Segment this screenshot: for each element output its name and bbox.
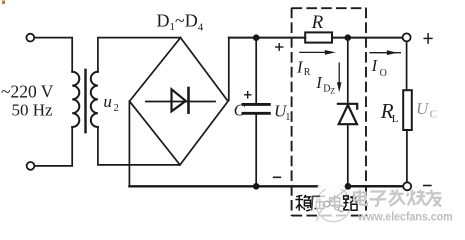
bridge rectifier D1~D4 diamond <box>130 38 229 165</box>
wire zener anode to bottom rail <box>347 124 349 186</box>
caption 稳 (drawn strokes) <box>295 195 311 211</box>
svg-text:L: L <box>392 113 399 125</box>
caption 压 (drawn strokes) <box>312 196 326 210</box>
current arrow IO <box>369 50 401 55</box>
junction node: rail / C bottom <box>253 183 260 190</box>
current arrow IDZ (downward) <box>337 63 342 93</box>
svg-text:~220 V: ~220 V <box>1 82 54 102</box>
capacitor C plates <box>243 103 269 106</box>
wire capacitor C bottom <box>255 115 257 187</box>
transformer T1 core <box>84 70 86 132</box>
zener diode DZ triangle (hollow) <box>339 105 357 124</box>
svg-text:U: U <box>416 99 430 118</box>
wire bridge right vertex up to positive rail <box>228 38 230 101</box>
svg-text:www.elecfans.com: www.elecfans.com <box>357 210 452 224</box>
svg-text:50 Hz: 50 Hz <box>12 101 54 120</box>
svg-text:1: 1 <box>285 112 290 123</box>
caption 电 (drawn strokes) <box>330 195 341 210</box>
output terminal bottom-right <box>403 182 411 190</box>
stray orange pixel mark top-left corner <box>2 1 5 5</box>
svg-text:Z: Z <box>330 86 335 95</box>
junction node redrawn over stamp <box>345 183 352 190</box>
wire bridge left vertex down to negative rail <box>128 101 130 186</box>
zener diode DZ cathode bar with right bent end <box>338 104 357 109</box>
wire secondary bottom to bridge bottom vertex <box>98 127 180 165</box>
polarity + on positive rail <box>275 43 284 51</box>
svg-text:R: R <box>311 12 324 33</box>
svg-text:D1~D4: D1~D4 <box>157 11 204 34</box>
watermark text 电子发烧友 (drawn strokes, light gray) <box>354 189 441 206</box>
wire zener branch top <box>347 38 349 105</box>
polarity + at output <box>424 33 433 44</box>
bridge diode triangle (hollow) <box>172 89 186 111</box>
bridge diode horizontal lead <box>146 101 215 103</box>
caption 压 outer strokes (visible above watermark) <box>312 196 320 210</box>
junction node: rail / zener top <box>345 34 352 41</box>
wire capacitor C top <box>255 38 257 103</box>
input terminal top-left <box>26 34 34 42</box>
svg-text:R: R <box>304 67 311 78</box>
wire secondary top to bridge top vertex <box>98 38 181 72</box>
caption 路 (drawn strokes) <box>343 195 357 210</box>
svg-text:C: C <box>234 101 246 120</box>
output terminal top-right <box>403 33 411 41</box>
bridge diode cathode bar <box>187 88 190 113</box>
positive top rail (left of resistor R) <box>229 37 305 39</box>
current arrow IR <box>299 50 336 55</box>
transformer T1 primary winding <box>72 72 79 127</box>
positive top rail (right of resistor R) <box>332 37 402 39</box>
input terminal bottom-left <box>27 162 35 170</box>
transformer T1 secondary winding <box>91 72 98 127</box>
dashed box: regulator section <box>292 8 366 216</box>
resistor R body <box>305 32 332 42</box>
polarity + at capacitor <box>244 91 252 99</box>
polarity - at output <box>423 185 432 187</box>
negative bottom rail <box>129 185 403 187</box>
svg-text:u: u <box>103 92 112 111</box>
svg-text:C: C <box>430 110 437 121</box>
wire from bottom-left terminal to transformer primary bottom <box>35 127 73 166</box>
load resistor RL body <box>403 90 412 130</box>
junction node: rail / C top <box>253 34 260 41</box>
svg-text:O: O <box>380 68 387 79</box>
junction node: rail / zener bottom <box>345 183 352 190</box>
watermark stamp circle with logo <box>316 183 350 222</box>
bottom rail stub right of stamp <box>350 185 403 187</box>
polarity - on negative rail <box>273 176 281 178</box>
wire RL bottom to output terminal <box>406 130 408 182</box>
wire output top: rail to RL <box>406 42 408 91</box>
svg-text:2: 2 <box>114 103 119 114</box>
wire from top-left terminal to transformer primary top <box>34 38 72 72</box>
